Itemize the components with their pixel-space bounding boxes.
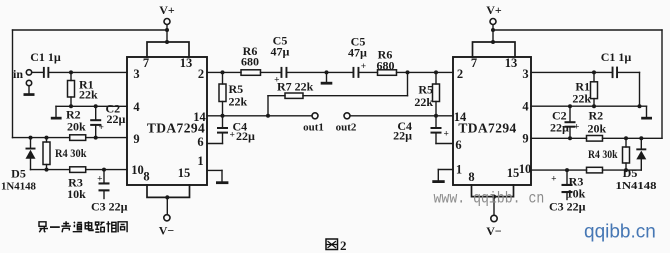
resistor R2 20k (right)	[587, 109, 607, 142]
svg-text:9: 9	[133, 132, 139, 146]
wire R7 to pin 2 row (right)	[303, 72, 408, 95]
resistor R6 680 (left)	[241, 44, 261, 75]
wire in to C1	[32, 71, 43, 73]
svg-text:+: +	[361, 62, 366, 72]
svg-text:C1 1µ: C1 1µ	[601, 50, 632, 64]
svg-text:TDA7294: TDA7294	[458, 121, 516, 136]
svg-text:4: 4	[522, 100, 529, 114]
resistor R2 20k (left)	[66, 108, 86, 141]
svg-text:680: 680	[241, 55, 259, 69]
wire pin 1 to ground (left)	[207, 170, 222, 181]
wire pin 4 row (left)	[56, 104, 127, 108]
svg-text:22µ: 22µ	[550, 121, 569, 135]
svg-text:+: +	[444, 130, 449, 140]
svg-text:R4 30k: R4 30k	[55, 146, 87, 160]
svg-text:47µ: 47µ	[348, 46, 367, 60]
svg-text:22µ: 22µ	[393, 129, 412, 143]
ground (input jack)	[24, 86, 35, 96]
svg-text:20k: 20k	[67, 120, 86, 134]
power terminal V- (right)	[486, 215, 502, 238]
diode D5 1N4148 (right)	[616, 138, 658, 192]
capacitor C5 47u (right)	[348, 35, 367, 78]
wire pin 14 row (right)	[350, 114, 453, 118]
svg-text:2: 2	[198, 67, 204, 81]
svg-text:in: in	[13, 67, 23, 81]
svg-text:2: 2	[457, 67, 463, 81]
power terminal V+ (left)	[159, 3, 175, 42]
svg-text:680: 680	[377, 59, 395, 73]
svg-text:10k: 10k	[67, 187, 86, 201]
svg-text:D5: D5	[11, 167, 26, 181]
wire C1 to pin 3	[49, 70, 127, 74]
output terminal out2	[336, 113, 357, 134]
svg-text:22k: 22k	[414, 95, 433, 109]
ground (R1/R2 junction right)	[641, 106, 652, 119]
wire C5 to mid ground (left)	[288, 71, 353, 73]
wire pins 7/13 bracket (left)	[147, 40, 189, 57]
wire R6 to C5 (left)	[261, 71, 281, 73]
svg-text:V+: V+	[486, 3, 502, 17]
wire right rail	[661, 30, 663, 138]
ground (pin 1 left)	[216, 181, 228, 184]
svg-text:22k: 22k	[229, 95, 248, 109]
capacitor C5 47u (left)	[271, 34, 290, 86]
capacitor C1 1u (right)	[601, 50, 632, 78]
capacitor C3 22u (right)	[549, 170, 586, 213]
svg-text:10k: 10k	[567, 187, 586, 201]
svg-text:qqibb.cn: qqibb.cn	[584, 222, 656, 243]
wire pin 2 row (right segment)	[397, 70, 454, 74]
svg-text:2: 2	[340, 238, 347, 253]
svg-text:+: +	[97, 175, 102, 185]
power terminal V- (left)	[159, 215, 175, 238]
capacitor C4 22u (right)	[393, 116, 453, 144]
svg-text:C3 22µ: C3 22µ	[91, 200, 128, 214]
watermark www.qqibb.cn (gray)	[434, 191, 545, 208]
svg-text:out2: out2	[336, 122, 357, 134]
capacitor C2 22u (left)	[90, 102, 125, 138]
svg-text:10: 10	[131, 163, 144, 177]
capacitor C1 1u (left)	[30, 50, 61, 78]
power terminal V+ (right)	[486, 3, 502, 42]
op-amp IC U2 TDA7294 (right)	[453, 56, 531, 185]
resistor R5 22k (right)	[414, 72, 439, 115]
svg-text:9: 9	[522, 132, 528, 146]
svg-text:V−: V−	[486, 224, 502, 238]
svg-text:15: 15	[178, 166, 191, 180]
svg-text:3: 3	[133, 67, 139, 81]
ground (pin 1 right)	[432, 180, 444, 183]
resistor R4 30k (right)	[588, 138, 630, 170]
ground (R1/R2 junction left)	[51, 106, 62, 119]
svg-text:+: +	[574, 123, 579, 133]
svg-text:1: 1	[197, 154, 203, 168]
svg-text:8: 8	[468, 170, 474, 184]
svg-text:20k: 20k	[588, 122, 607, 136]
resistor R1 22k (left)	[68, 72, 99, 106]
wire pins 7/13 bracket (right)	[473, 40, 516, 57]
input terminal (in)	[13, 67, 32, 86]
svg-text:www. qqibb. cn: www. qqibb. cn	[434, 191, 545, 208]
svg-text:22µ: 22µ	[236, 129, 255, 143]
wire V+ rail top-right	[493, 29, 662, 31]
wire pin 10 row (right)	[531, 168, 641, 172]
wire pin 10 row (left)	[31, 168, 128, 172]
svg-text:6: 6	[197, 135, 203, 149]
resistor R4 30k (left)	[43, 138, 87, 170]
output terminal out1	[303, 113, 324, 134]
svg-text:D5: D5	[623, 166, 638, 180]
capacitor C3 22u (left)	[91, 170, 128, 214]
svg-text:1N4148: 1N4148	[616, 180, 658, 192]
diode D5 1N4148 (left)	[1, 138, 36, 193]
svg-text:7: 7	[471, 56, 477, 70]
wire pin 4 row (right)	[531, 104, 647, 108]
wire pin 14 row (left)	[207, 114, 312, 118]
caption: other-channel note (Chinese)	[39, 221, 127, 232]
svg-text:C1 1µ: C1 1µ	[30, 50, 61, 64]
wire pins 8/15 bracket (right)	[472, 185, 514, 215]
svg-text:22µ: 22µ	[107, 112, 126, 126]
svg-text:6: 6	[455, 138, 461, 152]
svg-text:10: 10	[519, 162, 532, 176]
svg-text:out1: out1	[303, 122, 324, 134]
capacitor C4 22u (left)	[207, 116, 255, 144]
svg-text:22k: 22k	[572, 92, 591, 106]
svg-text:TDA7294: TDA7294	[147, 121, 205, 136]
wire V+ rail top-left	[13, 29, 168, 31]
svg-text:15: 15	[507, 166, 520, 180]
svg-text:+: +	[99, 123, 104, 133]
svg-text:V+: V+	[159, 3, 175, 17]
wire pins 8/15 bracket (left)	[147, 185, 190, 215]
ground (mid C5 junction)	[321, 70, 333, 84]
svg-text:R7 22k: R7 22k	[277, 80, 314, 94]
svg-text:3: 3	[522, 67, 528, 81]
wire pin 9 row (left)	[13, 136, 128, 140]
svg-text:R2: R2	[589, 109, 604, 123]
op-amp IC U1 TDA7294 (left)	[127, 56, 207, 185]
svg-text:4: 4	[133, 100, 140, 114]
wire pin 1 to ground (right)	[438, 170, 453, 181]
svg-text:1: 1	[456, 163, 462, 177]
figure caption 2	[326, 238, 347, 253]
resistor R6 680 (right)	[377, 48, 397, 76]
wire pin 9 row (right)	[531, 136, 662, 140]
wire left rail	[12, 30, 14, 138]
resistor R1 22k (right)	[572, 72, 597, 106]
svg-text:8: 8	[143, 170, 149, 184]
svg-text:1N4148: 1N4148	[1, 181, 36, 193]
svg-text:22k: 22k	[79, 88, 98, 102]
resistor R3 10k (right)	[567, 167, 603, 200]
svg-text:7: 7	[143, 56, 149, 70]
capacitor C2 22u (right)	[550, 106, 579, 138]
svg-text:13: 13	[180, 56, 193, 70]
resistor R5 22k (left)	[219, 72, 248, 115]
svg-text:13: 13	[505, 56, 518, 70]
resistor R3 10k (left)	[67, 167, 86, 201]
wire C5 to R6 (right)	[360, 71, 378, 73]
svg-text:+: +	[551, 175, 556, 185]
svg-text:C3 22µ: C3 22µ	[549, 200, 586, 214]
svg-text:47µ: 47µ	[271, 45, 290, 59]
wire C1 to pin 4 row corner (right)	[618, 72, 639, 106]
wire pin 3 row (right)	[531, 70, 612, 74]
svg-text:V−: V−	[159, 224, 175, 238]
resistor R7 22k	[268, 80, 314, 116]
watermark qqibb.cn (blue)	[584, 222, 656, 243]
svg-text:R4 30k: R4 30k	[588, 147, 618, 161]
wire pin 2 row (left segment)	[207, 70, 241, 74]
